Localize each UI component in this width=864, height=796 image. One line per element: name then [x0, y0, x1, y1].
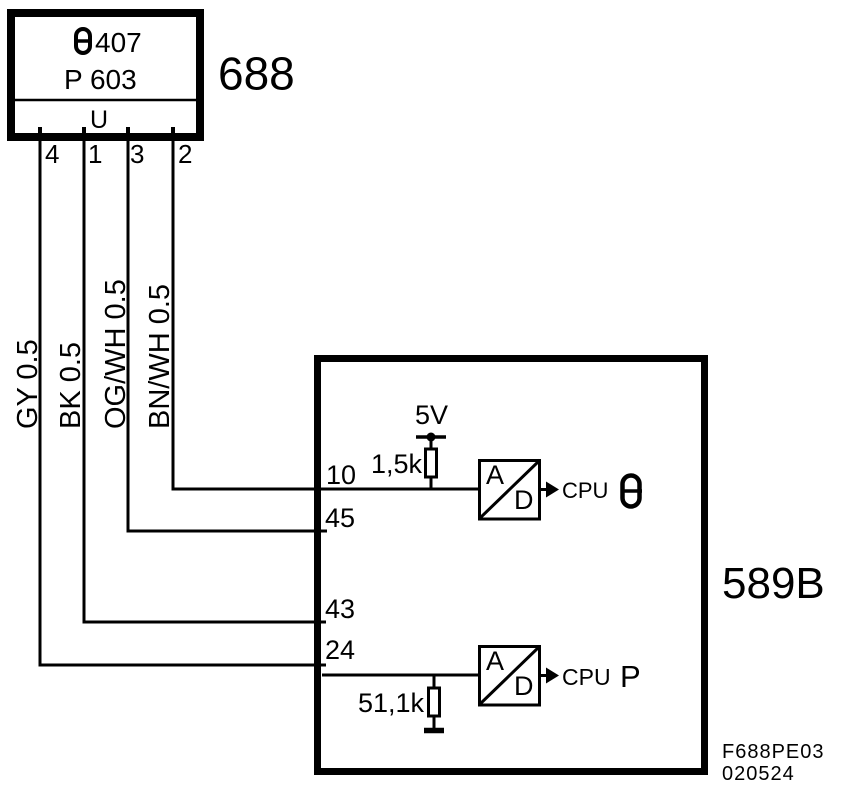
svg-text:CPU: CPU: [562, 664, 611, 690]
wire BK from pin 1 to pin 43 of 589B: [84, 141, 326, 622]
theta symbol at CPU: [621, 476, 643, 507]
svg-text:GY 0.5: GY 0.5: [12, 339, 44, 429]
pin tick 1: [82, 127, 86, 137]
ECU box 589B outline: [318, 359, 705, 772]
svg-text:F688PE03: F688PE03: [722, 741, 825, 763]
arrow from A/D to CPU (theta channel): [541, 482, 559, 498]
wire BN/WH from pin 2 to pin 10 of 589B: [173, 141, 478, 489]
svg-text:P: P: [620, 659, 641, 694]
svg-text:A: A: [486, 646, 504, 676]
divider line in box 688: [15, 99, 196, 102]
5V supply rail bar: [416, 435, 446, 439]
svg-text:1,5k: 1,5k: [371, 449, 423, 479]
svg-text:43: 43: [325, 594, 355, 624]
svg-text:2: 2: [178, 139, 192, 169]
svg-text:A: A: [486, 460, 504, 490]
svg-text:BK 0.5: BK 0.5: [55, 342, 87, 429]
svg-text:P 603: P 603: [64, 64, 137, 95]
svg-text:10: 10: [326, 460, 356, 490]
arrow from A/D to CPU (P channel): [541, 668, 559, 684]
svg-text:51,1k: 51,1k: [358, 688, 425, 718]
resistor R2 51,1k body: [429, 688, 440, 716]
svg-text:020524: 020524: [722, 763, 795, 785]
ground symbol: [424, 728, 444, 734]
wire GY from pin 4 to pin 24 of 589B: [40, 141, 326, 665]
svg-text:589B: 589B: [722, 559, 825, 608]
svg-text:24: 24: [325, 635, 355, 665]
svg-text:D: D: [514, 671, 534, 701]
svg-text:45: 45: [325, 503, 355, 533]
svg-text:D: D: [514, 485, 534, 515]
wire from 5V rail to resistor R1: [430, 437, 433, 450]
svg-text:BN/WH 0.5: BN/WH 0.5: [144, 284, 176, 429]
svg-text:407: 407: [95, 27, 142, 58]
svg-text:4: 4: [45, 139, 59, 169]
pin tick 2: [171, 127, 175, 137]
svg-text:OG/WH 0.5: OG/WH 0.5: [100, 279, 132, 429]
connector box 688 (sensor unit outline): [11, 13, 200, 137]
pin tick 4: [38, 127, 42, 137]
resistor R1 1,5k body: [426, 449, 437, 477]
A/D converter box (theta channel): [479, 460, 540, 519]
svg-text:1: 1: [88, 139, 102, 169]
pin tick 3: [126, 127, 130, 137]
svg-text:688: 688: [218, 48, 295, 100]
wire OG/WH from pin 3 to pin 45 of 589B: [128, 141, 327, 531]
wire from resistor R2 to ground: [433, 716, 436, 729]
theta symbol in box 688: [74, 29, 92, 53]
svg-text:3: 3: [130, 139, 144, 169]
A/D converter box (P channel): [479, 646, 540, 705]
junction dot on 5V rail: [427, 433, 436, 442]
svg-text:CPU: CPU: [562, 478, 608, 503]
wire from resistor R1 to node on pin-10 line: [430, 477, 433, 490]
svg-text:U: U: [90, 106, 108, 134]
internal wire from pin 24 to A/D (P channel): [322, 674, 478, 677]
svg-text:5V: 5V: [415, 400, 448, 430]
wire from node to resistor R2: [433, 675, 436, 689]
